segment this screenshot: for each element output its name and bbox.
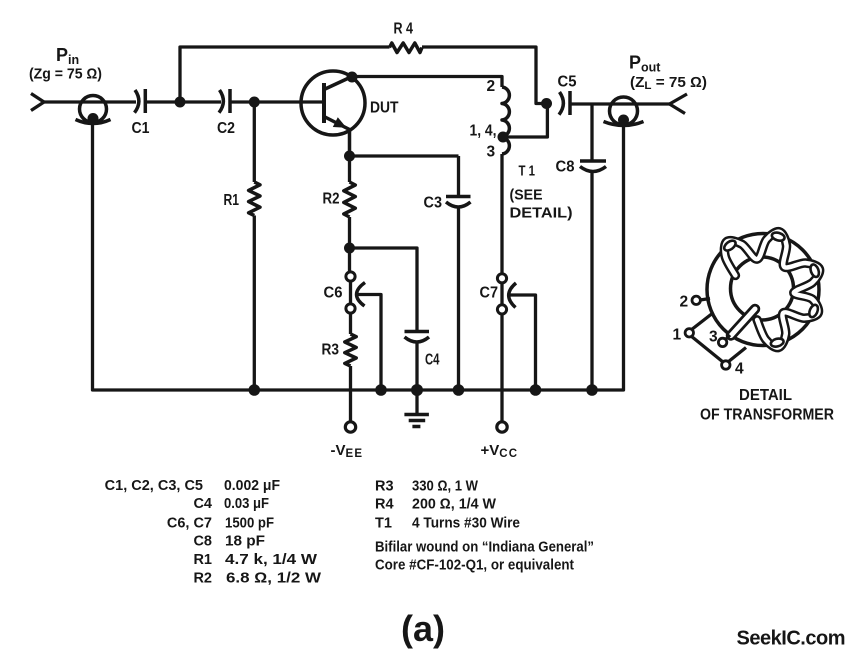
resistor R1 bbox=[224, 102, 261, 390]
svg-text:0.002 μF: 0.002 μF bbox=[224, 478, 280, 494]
parts list left column bbox=[105, 478, 322, 587]
transformer detail pin 4 bbox=[722, 361, 730, 369]
node bus junction R1 bbox=[249, 384, 261, 396]
node collector dot bbox=[347, 72, 358, 83]
svg-text:DETAIL: DETAIL bbox=[739, 387, 792, 404]
svg-text:(SEE: (SEE bbox=[510, 187, 543, 204]
node bus junction C6 arm bbox=[375, 384, 387, 396]
svg-text:R 4: R 4 bbox=[394, 21, 414, 38]
transformer detail caption bbox=[700, 387, 834, 424]
resistor R4 bbox=[390, 21, 423, 53]
node emitter junction bbox=[344, 151, 355, 162]
svg-text:3: 3 bbox=[487, 144, 496, 161]
svg-text:SeekIC.com: SeekIC.com bbox=[737, 628, 846, 650]
wire node A up to top feedback rail bbox=[180, 47, 390, 102]
connector J2 output jack bbox=[604, 97, 644, 126]
svg-text:4: 4 bbox=[735, 361, 744, 378]
svg-text:T 1: T 1 bbox=[519, 164, 536, 180]
transformer detail toroid core bbox=[707, 234, 819, 346]
resistor R2 bbox=[323, 156, 356, 248]
wire node A to C2 bbox=[180, 100, 221, 103]
node bus junction C4/ground bbox=[411, 384, 423, 396]
svg-text:0.03 μF: 0.03 μF bbox=[224, 496, 269, 512]
svg-text:C1, C2, C3, C5: C1, C2, C3, C5 bbox=[105, 478, 203, 494]
node bus junction C3 bbox=[453, 384, 465, 396]
svg-text:C8: C8 bbox=[556, 159, 575, 176]
wire C5 to output bbox=[572, 102, 641, 105]
capacitor C8 bbox=[556, 104, 607, 390]
svg-text:1: 1 bbox=[673, 327, 682, 344]
wire collector to T1 pin2 bbox=[352, 77, 502, 88]
output arrow bbox=[670, 94, 688, 114]
transformer detail winding apex knots bbox=[722, 231, 820, 348]
wire node B to transistor base bbox=[254, 100, 323, 103]
capacitor C3 bbox=[424, 156, 471, 390]
wire C6 ground arm bbox=[358, 295, 381, 391]
terminal -VEE bbox=[331, 422, 364, 460]
svg-text:C7: C7 bbox=[480, 285, 499, 302]
svg-text:2: 2 bbox=[680, 294, 689, 311]
wire C7 ground arm bbox=[509, 295, 536, 390]
svg-text:4.7 k, 1/4 W: 4.7 k, 1/4 W bbox=[225, 552, 317, 568]
svg-text:C6, C7: C6, C7 bbox=[167, 516, 212, 532]
transformer T1 winding bbox=[470, 78, 573, 222]
transformer detail pin 1 bbox=[685, 329, 693, 337]
svg-text:R1: R1 bbox=[193, 552, 212, 568]
svg-text:OF TRANSFORMER: OF TRANSFORMER bbox=[700, 407, 834, 424]
wire C1 to node A bbox=[147, 100, 180, 103]
wire R4 to C5 node bbox=[422, 47, 546, 104]
node C5 junction bbox=[541, 98, 552, 109]
connector J1 input jack bbox=[76, 96, 111, 125]
wire input to C1 bbox=[42, 100, 136, 103]
svg-text:2: 2 bbox=[487, 78, 496, 95]
svg-text:R3: R3 bbox=[322, 342, 340, 359]
transformer detail winding wire bbox=[724, 232, 819, 348]
svg-text:4 Turns #30 Wire: 4 Turns #30 Wire bbox=[412, 516, 520, 532]
svg-text:(Zg = 75 Ω): (Zg = 75 Ω) bbox=[29, 67, 102, 83]
parts list right column bbox=[375, 479, 594, 574]
node R2-C6 junction bbox=[344, 243, 355, 254]
terminal +VCC bbox=[481, 422, 519, 460]
node A junction bbox=[175, 97, 186, 108]
capacitor C5 bbox=[558, 74, 577, 116]
svg-text:330 Ω, 1 W: 330 Ω, 1 W bbox=[412, 479, 478, 495]
capacitor C1 bbox=[132, 89, 150, 137]
svg-text:DETAIL): DETAIL) bbox=[510, 205, 573, 222]
svg-text:C1: C1 bbox=[132, 120, 150, 137]
svg-text:R2: R2 bbox=[193, 570, 212, 586]
wire output to arrow bbox=[640, 102, 670, 105]
transformer detail winding end lead to pin3 bbox=[731, 309, 755, 336]
svg-text:Core #CF-102-Q1, or equivalent: Core #CF-102-Q1, or equivalent bbox=[375, 558, 574, 574]
node Pin label bbox=[29, 45, 102, 83]
capacitor C6 feedthrough bbox=[324, 248, 366, 313]
input arrow bbox=[31, 94, 44, 111]
svg-text:DUT: DUT bbox=[370, 100, 399, 117]
svg-text:R4: R4 bbox=[375, 497, 394, 513]
node Pout label bbox=[629, 53, 707, 93]
transistor Q1 DUT bbox=[301, 71, 399, 156]
capacitor C4 bbox=[405, 332, 440, 391]
svg-text:200 Ω, 1/4 W: 200 Ω, 1/4 W bbox=[412, 497, 496, 513]
svg-text:R3: R3 bbox=[375, 479, 394, 495]
capacitor C7 feedthrough bbox=[480, 154, 517, 314]
svg-text:C4: C4 bbox=[425, 352, 440, 369]
wire C2 to node B bbox=[232, 100, 255, 103]
svg-text:R1: R1 bbox=[224, 192, 240, 209]
svg-text:C2: C2 bbox=[217, 120, 235, 137]
node B junction bbox=[249, 97, 260, 108]
svg-text:1500 pF: 1500 pF bbox=[225, 516, 274, 532]
node bus junction C8 bbox=[586, 384, 598, 396]
svg-text:R2: R2 bbox=[323, 191, 340, 208]
svg-text:Bifilar wound on “Indiana Gene: Bifilar wound on “Indiana General” bbox=[375, 540, 594, 556]
capacitor C2 bbox=[217, 89, 235, 137]
svg-text:C5: C5 bbox=[558, 74, 577, 91]
svg-text:C3: C3 bbox=[424, 195, 443, 212]
svg-text:C6: C6 bbox=[324, 285, 343, 302]
svg-text:C4: C4 bbox=[193, 496, 212, 512]
wire T1 tap to C5 node bbox=[503, 104, 547, 138]
svg-text:(ZL = 75 Ω): (ZL = 75 Ω) bbox=[630, 75, 707, 92]
ground symbol bbox=[404, 390, 429, 427]
wire emitter node to C3 bbox=[350, 154, 459, 157]
node bus junction C7 arm bbox=[530, 384, 542, 396]
node T1 tap junction bbox=[498, 132, 509, 143]
resistor R3 bbox=[322, 313, 357, 422]
wire C7 to +VCC bbox=[500, 314, 503, 422]
transformer detail pin leads bbox=[691, 299, 746, 363]
svg-text:(a): (a) bbox=[401, 608, 445, 649]
svg-text:6.8 Ω, 1/2 W: 6.8 Ω, 1/2 W bbox=[226, 570, 321, 586]
svg-text:T1: T1 bbox=[375, 516, 392, 532]
svg-text:18 pF: 18 pF bbox=[225, 533, 265, 549]
wire junction to C4 bbox=[350, 248, 418, 332]
svg-text:3: 3 bbox=[709, 329, 718, 346]
svg-text:1, 4,: 1, 4, bbox=[470, 123, 497, 140]
svg-text:C8: C8 bbox=[193, 533, 212, 549]
transformer detail pin 3 bbox=[718, 338, 726, 346]
transformer detail pin 2 bbox=[692, 296, 700, 304]
wire ground bus bbox=[93, 124, 624, 390]
